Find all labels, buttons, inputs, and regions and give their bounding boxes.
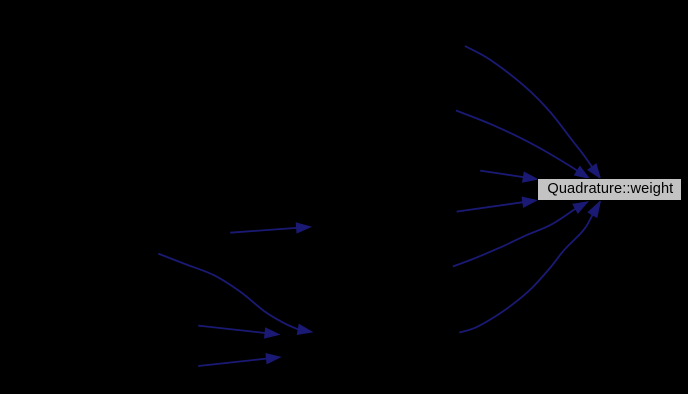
edge L3 left -> bottom node: [198, 326, 279, 338]
edge L1 left -> mid node: [230, 223, 310, 233]
edge E2 caller-top-2 -> weight: [456, 111, 589, 179]
edge E4 caller-mid-2 -> weight: [457, 197, 537, 211]
edge L4 left -> bottom node: [198, 354, 280, 366]
edge E6 caller-bot-2 -> weight: [459, 201, 600, 333]
edge E1 caller-top-1 -> weight: [465, 46, 600, 178]
edge E3 caller-mid-1 -> weight: [480, 171, 537, 183]
node box: Quadrature::weight (highlighted current node): [537, 178, 682, 201]
edge L2 left -> bottom node (S-curve): [158, 254, 312, 335]
edge E5 caller-bot-1 -> weight: [453, 202, 588, 267]
